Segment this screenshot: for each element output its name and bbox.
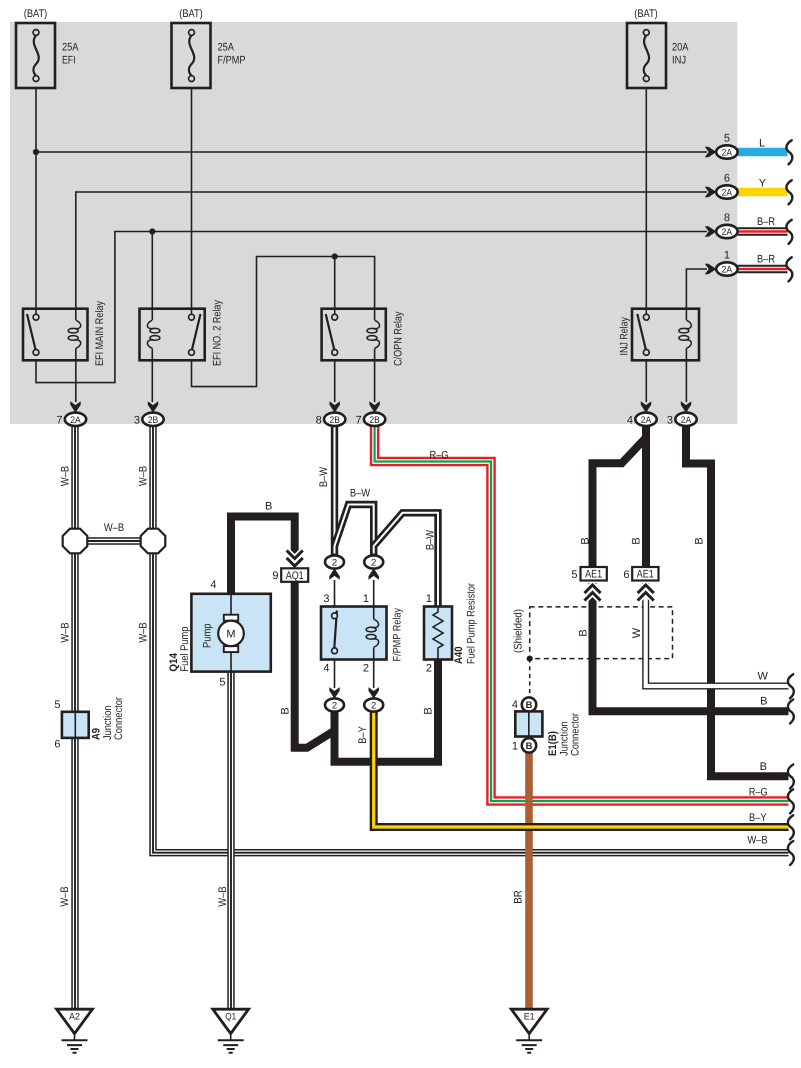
fuse 25A EFI bbox=[16, 8, 79, 88]
svg-text:25A: 25A bbox=[62, 42, 79, 54]
svg-text:BR: BR bbox=[513, 890, 525, 904]
wire B-Y: relay pin 2 oval down and right to edge bbox=[374, 712, 794, 840]
ground E1 bbox=[511, 1009, 547, 1053]
svg-text:2: 2 bbox=[426, 663, 432, 675]
svg-text:7: 7 bbox=[355, 414, 361, 426]
svg-text:Connector: Connector bbox=[570, 713, 582, 756]
svg-text:AQ1: AQ1 bbox=[286, 570, 304, 582]
wire: EFI MAIN coil out to connector 7 2A bbox=[75, 360, 77, 402]
svg-text:1: 1 bbox=[363, 593, 369, 605]
svg-text:B–W: B–W bbox=[318, 466, 330, 487]
wire B: relay pin 4 oval down to resistor pin 2 bbox=[335, 660, 439, 762]
svg-text:2A: 2A bbox=[722, 148, 733, 159]
svg-text:Fuel Pump Resistor: Fuel Pump Resistor bbox=[466, 583, 478, 664]
relay C/OPN (switch left, coil right) bbox=[322, 309, 405, 366]
svg-text:2: 2 bbox=[371, 558, 376, 569]
wire: EFI NO.2 relay coil top bbox=[151, 232, 153, 309]
connector AQ1 bbox=[272, 552, 308, 583]
relay INJ (switch left, coil right, label left) bbox=[619, 309, 700, 361]
svg-text:R–G: R–G bbox=[430, 449, 449, 461]
svg-text:Q1: Q1 bbox=[225, 1012, 236, 1023]
wire B-W: branch to F/PMP relay pin 1 oval bbox=[335, 505, 374, 556]
junction connector E1(B) bbox=[512, 697, 582, 756]
svg-text:2: 2 bbox=[371, 701, 376, 712]
svg-text:2A: 2A bbox=[681, 415, 692, 426]
svg-text:F/PMP Relay: F/PMP Relay bbox=[392, 608, 404, 662]
wire: INJ fuse to INJ relay switch bbox=[645, 88, 647, 314]
svg-text:8: 8 bbox=[316, 414, 322, 426]
svg-text:B: B bbox=[526, 700, 533, 711]
octagon junction right bbox=[141, 529, 166, 554]
connector oval 3 2A bbox=[667, 413, 697, 427]
terminal 1 2A with B-R wire bbox=[705, 249, 793, 281]
svg-text:B–R: B–R bbox=[757, 254, 775, 266]
svg-text:(BAT): (BAT) bbox=[24, 8, 48, 20]
svg-text:8: 8 bbox=[724, 212, 730, 224]
svg-text:2: 2 bbox=[332, 558, 337, 569]
svg-text:W–B: W–B bbox=[104, 522, 124, 534]
svg-text:M: M bbox=[226, 629, 235, 641]
svg-text:L: L bbox=[759, 137, 765, 149]
svg-text:W–B: W–B bbox=[138, 466, 150, 486]
wire W-B: connector 3 2B down and right to edge bbox=[153, 426, 794, 865]
svg-text:A2: A2 bbox=[69, 1012, 80, 1023]
svg-text:B–W: B–W bbox=[350, 487, 371, 499]
wire: EFI MAIN switch out to terminal 8 (B-R) bbox=[36, 232, 707, 383]
fuse 25A F/PMP bbox=[172, 8, 246, 88]
fuel pump resistor A40 bbox=[424, 583, 478, 675]
svg-text:2B: 2B bbox=[329, 415, 340, 426]
connector oval 7 2A bbox=[56, 413, 86, 427]
wire: C/OPN coil out to connector 7 2B bbox=[374, 360, 376, 402]
node: junction dot on C/OPN feed bbox=[332, 253, 338, 259]
svg-text:2A: 2A bbox=[722, 188, 733, 199]
svg-text:B: B bbox=[578, 629, 590, 636]
svg-text:W–B: W–B bbox=[60, 466, 72, 486]
svg-text:W–B: W–B bbox=[217, 886, 229, 906]
svg-text:5: 5 bbox=[219, 677, 225, 689]
terminal 5 2A with L wire bbox=[705, 133, 793, 165]
svg-text:1: 1 bbox=[512, 741, 518, 753]
svg-text:A9: A9 bbox=[91, 728, 103, 740]
ground A2 bbox=[57, 1009, 93, 1053]
relay F/PMP bbox=[321, 607, 404, 662]
svg-text:W–B: W–B bbox=[747, 835, 767, 847]
fuel pump Q14 bbox=[168, 579, 271, 689]
wire B: connector 3 2A down right side to edge bbox=[686, 426, 794, 789]
svg-text:B–W: B–W bbox=[425, 529, 437, 550]
svg-text:R–G: R–G bbox=[749, 787, 768, 799]
wire: INJ relay coil to terminal 1 (B-R) bbox=[686, 269, 707, 309]
relay EFI MAIN (switch left, coil right) bbox=[23, 301, 106, 366]
octagon junction left bbox=[63, 529, 88, 554]
svg-text:(Shielded): (Shielded) bbox=[513, 609, 525, 653]
svg-text:F/PMP: F/PMP bbox=[218, 55, 246, 67]
svg-text:B: B bbox=[280, 707, 292, 714]
wire BR: E1(B) connector down to ground E1 bbox=[525, 753, 533, 1010]
svg-text:2A: 2A bbox=[722, 227, 733, 238]
svg-text:3: 3 bbox=[134, 414, 140, 426]
svg-text:EFI MAIN Relay: EFI MAIN Relay bbox=[94, 301, 106, 366]
svg-text:2: 2 bbox=[332, 701, 337, 712]
node: junction dot on terminal-8 line bbox=[149, 228, 155, 234]
wire B: fuel pump pin 4 up over to AQ1 connector bbox=[231, 517, 295, 594]
svg-text:Pump: Pump bbox=[202, 624, 214, 649]
svg-text:B: B bbox=[631, 537, 643, 544]
wire: C/OPN switch top branch bbox=[334, 257, 336, 315]
wire: INJ coil out to connector 3 2A bbox=[685, 360, 687, 402]
svg-text:4: 4 bbox=[512, 699, 518, 711]
svg-text:Fuel Pump: Fuel Pump bbox=[179, 627, 191, 672]
svg-text:1: 1 bbox=[724, 249, 730, 261]
svg-text:AE1: AE1 bbox=[585, 569, 602, 581]
svg-text:B: B bbox=[265, 501, 272, 513]
svg-text:5: 5 bbox=[571, 569, 577, 581]
svg-text:2B: 2B bbox=[148, 415, 159, 426]
node A (junction dot at EFI fuse) bbox=[33, 149, 39, 155]
connector AE1 6 bbox=[623, 567, 658, 600]
wire: EFI fuse to EFI MAIN relay switch bbox=[35, 88, 37, 314]
wire: C/OPN switch out to connector 8 2B bbox=[334, 360, 336, 402]
wire W-B: fuel pump pin 5 to ground Q1 bbox=[227, 672, 234, 1009]
svg-text:B: B bbox=[760, 761, 767, 773]
svg-text:C/OPN Relay: C/OPN Relay bbox=[393, 311, 405, 366]
F/PMP relay pin ovals (upper 2,2) bbox=[323, 555, 383, 606]
svg-text:B: B bbox=[694, 537, 706, 544]
terminal 8 2A with B-R wire bbox=[705, 212, 793, 244]
wire W-B: connector 7 2A down to ground A2 bbox=[71, 426, 78, 1009]
wire: EFI MAIN relay coil to terminal 6 (Y) bbox=[76, 192, 707, 309]
svg-text:B–R: B–R bbox=[757, 216, 775, 228]
wire: node to terminal 5 (L) bbox=[36, 151, 707, 153]
svg-text:2A: 2A bbox=[70, 415, 81, 426]
relay EFI NO.2 (coil left, switch right) bbox=[140, 300, 224, 366]
svg-text:Y: Y bbox=[759, 177, 767, 189]
svg-text:(BAT): (BAT) bbox=[179, 8, 203, 20]
wire: F/PMP fuse to EFI NO.2 relay switch bbox=[191, 88, 193, 314]
shielded dashed box bbox=[513, 607, 673, 697]
junction connector A9 bbox=[54, 697, 125, 751]
wire B-W: branch to fuel pump resistor pin 1 bbox=[374, 513, 438, 607]
svg-text:W: W bbox=[758, 671, 769, 683]
wire B-W: connector 8 2B to F/PMP relay pin 3 oval bbox=[331, 426, 338, 556]
svg-text:B: B bbox=[580, 537, 592, 544]
connector oval 8 2B bbox=[316, 413, 346, 427]
svg-text:1: 1 bbox=[426, 593, 432, 605]
wire: EFI NO.2 switch out to C/OPN feed bbox=[192, 257, 375, 387]
svg-text:B–Y: B–Y bbox=[357, 726, 369, 744]
svg-text:B: B bbox=[423, 707, 435, 714]
svg-text:W–B: W–B bbox=[138, 622, 150, 642]
svg-text:2A: 2A bbox=[722, 265, 733, 276]
svg-text:5: 5 bbox=[54, 699, 60, 711]
connector oval 3 2B bbox=[134, 413, 164, 427]
wire: INJ switch out to connector 4 2A bbox=[645, 360, 647, 402]
fuse 20A INJ bbox=[627, 8, 689, 88]
svg-text:A40: A40 bbox=[453, 647, 465, 665]
svg-text:4: 4 bbox=[323, 663, 329, 675]
svg-text:4: 4 bbox=[210, 579, 216, 591]
svg-text:4: 4 bbox=[627, 414, 633, 426]
ground Q1 bbox=[213, 1009, 249, 1053]
svg-text:W–B: W–B bbox=[60, 622, 72, 642]
background panel (gray) bbox=[10, 22, 737, 424]
svg-text:2A: 2A bbox=[641, 415, 652, 426]
svg-text:INJ: INJ bbox=[672, 55, 686, 67]
svg-text:9: 9 bbox=[272, 570, 278, 582]
connector AE1 5 bbox=[571, 567, 606, 600]
svg-text:3: 3 bbox=[667, 414, 673, 426]
svg-text:6: 6 bbox=[54, 739, 60, 751]
wire: EFI NO.2 coil out to connector 3 2B bbox=[151, 360, 153, 402]
svg-text:E1: E1 bbox=[524, 1012, 535, 1023]
svg-text:W: W bbox=[631, 627, 643, 638]
wire W: AE1 6 down and right to edge bbox=[646, 583, 794, 698]
svg-text:B–Y: B–Y bbox=[749, 812, 767, 824]
svg-text:6: 6 bbox=[724, 172, 730, 184]
svg-text:AE1: AE1 bbox=[637, 569, 654, 581]
svg-text:E1(B): E1(B) bbox=[547, 731, 559, 756]
connector oval 4 2A bbox=[627, 413, 657, 427]
wire R-G: connector 7 2B down, across and to right edge bbox=[375, 426, 794, 813]
svg-text:B: B bbox=[526, 741, 533, 752]
wire B: AQ1 down to junction with relay pin 4 wire bbox=[295, 578, 335, 748]
terminal 6 2A with Y wire bbox=[705, 172, 793, 204]
svg-text:2B: 2B bbox=[369, 415, 380, 426]
svg-text:W–B: W–B bbox=[59, 886, 71, 906]
wire W-B: between octagon junctions bbox=[80, 537, 148, 544]
svg-text:20A: 20A bbox=[672, 42, 689, 54]
svg-text:2: 2 bbox=[363, 663, 369, 675]
svg-text:7: 7 bbox=[56, 414, 62, 426]
svg-text:25A: 25A bbox=[218, 42, 235, 54]
connector oval 7 2B bbox=[355, 413, 385, 427]
svg-text:3: 3 bbox=[323, 593, 329, 605]
svg-text:6: 6 bbox=[623, 569, 629, 581]
svg-text:INJ Relay: INJ Relay bbox=[619, 317, 631, 356]
svg-text:EFI: EFI bbox=[62, 55, 76, 67]
wire B: connector 4 2A to AE1 connectors bbox=[593, 426, 647, 567]
svg-text:EFI NO. 2 Relay: EFI NO. 2 Relay bbox=[212, 300, 224, 366]
svg-text:(BAT): (BAT) bbox=[634, 8, 658, 20]
wire B: AE1 5 down and right to edge bbox=[593, 583, 794, 724]
svg-text:B: B bbox=[760, 696, 767, 708]
svg-text:Connector: Connector bbox=[113, 697, 125, 740]
F/PMP relay pin ovals (lower 2,2) bbox=[323, 660, 383, 712]
svg-text:5: 5 bbox=[724, 133, 730, 145]
